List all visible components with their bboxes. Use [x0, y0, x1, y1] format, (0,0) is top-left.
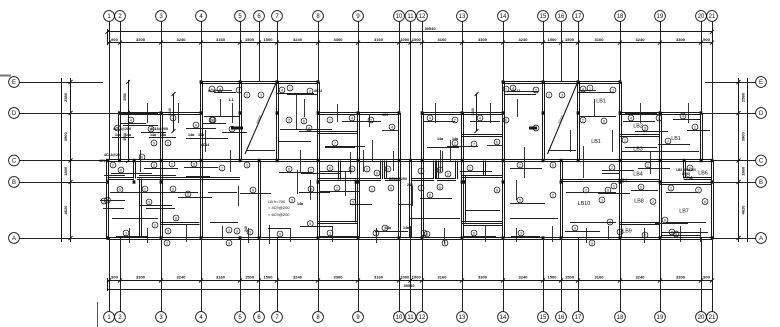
svg-text:2: 2 — [519, 163, 521, 167]
svg-text:3240: 3240 — [636, 37, 646, 42]
svg-text:4C14: 4C14 — [99, 159, 108, 163]
grid bubble top 12 — [417, 11, 428, 22]
svg-text:6: 6 — [429, 193, 431, 197]
svg-text:6: 6 — [603, 119, 605, 123]
svg-text:1: 1 — [589, 86, 591, 90]
svg-text:2: 2 — [154, 223, 156, 227]
svg-text:39540: 39540 — [424, 26, 436, 31]
svg-text:3240: 3240 — [177, 37, 187, 42]
svg-text:1000: 1000 — [412, 275, 422, 280]
svg-text:3160: 3160 — [595, 37, 605, 42]
bottom dimension lines — [107, 275, 714, 291]
left dimension lines — [62, 78, 73, 242]
svg-text:10: 10 — [396, 315, 403, 321]
grid lines top — [110, 22, 713, 161]
svg-text:6: 6 — [704, 200, 706, 204]
svg-text:4: 4 — [429, 116, 431, 120]
svg-text:2: 2 — [371, 187, 373, 191]
svg-text:13: 13 — [459, 315, 466, 321]
grid bubble bottom 1 — [104, 312, 115, 323]
svg-text:2: 2 — [246, 93, 248, 97]
svg-text:9: 9 — [574, 226, 576, 230]
svg-text:2: 2 — [624, 138, 626, 142]
svg-text:2: 2 — [166, 241, 168, 245]
interior vertical dimension brackets — [168, 92, 478, 133]
beam axis lines — [100, 91, 708, 245]
grid bubble top 15 — [538, 11, 549, 22]
svg-text:3900: 3900 — [63, 132, 68, 142]
svg-text:2: 2 — [420, 186, 422, 190]
svg-text:D: D — [759, 111, 764, 117]
svg-text:15: 15 — [540, 14, 547, 20]
svg-text:LB1: LB1 — [596, 99, 606, 105]
stair landing beams — [231, 127, 243, 130]
svg-text:LB4: LB4 — [683, 176, 693, 182]
svg-text:21: 21 — [709, 14, 716, 20]
svg-text:LB7: LB7 — [679, 209, 689, 215]
grid bubble bottom 14 — [498, 312, 509, 323]
svg-text:1500: 1500 — [264, 37, 274, 42]
svg-text:5: 5 — [640, 185, 642, 189]
svg-text:17: 17 — [575, 14, 582, 20]
row bubble right D — [756, 108, 767, 119]
svg-text:2: 2 — [187, 192, 189, 196]
svg-text:2: 2 — [246, 163, 248, 167]
svg-text:9: 9 — [279, 232, 281, 236]
svg-text:2: 2 — [552, 193, 554, 197]
svg-text:900: 900 — [703, 275, 710, 280]
svg-text:2: 2 — [548, 93, 550, 97]
grid bubble bottom 18 — [615, 312, 626, 323]
svg-text:19: 19 — [657, 315, 664, 321]
columns — [106, 80, 713, 239]
svg-text:9: 9 — [591, 241, 593, 245]
svg-text:1800: 1800 — [63, 166, 68, 176]
row bubble left D — [9, 108, 20, 119]
svg-text:4: 4 — [130, 118, 132, 122]
row leader lines right — [701, 83, 756, 239]
svg-text:8: 8 — [664, 218, 666, 222]
stray marks at sheet edges — [0, 75, 11, 77]
svg-text:3: 3 — [619, 230, 621, 234]
svg-text:11: 11 — [407, 315, 414, 321]
grid bubble bottom 9 — [353, 312, 364, 323]
grid bubble bottom 21 — [707, 312, 718, 323]
svg-text:LB1: LB1 — [591, 139, 601, 145]
svg-text:3160: 3160 — [374, 37, 384, 42]
svg-text:2: 2 — [585, 188, 587, 192]
svg-text:4C12: 4C12 — [208, 89, 217, 93]
svg-text:4C14@200: 4C14@200 — [113, 127, 131, 131]
grid bubble top 9 — [353, 11, 364, 22]
svg-text:6: 6 — [390, 186, 392, 190]
grid bubble bottom 5 — [235, 312, 246, 323]
svg-text:2: 2 — [387, 167, 389, 171]
svg-text:C: C — [759, 159, 764, 165]
svg-text:4620: 4620 — [741, 205, 746, 215]
svg-text:15: 15 — [540, 315, 547, 321]
svg-text:3240: 3240 — [177, 275, 187, 280]
row bubble right C — [756, 155, 767, 166]
svg-text:1000: 1000 — [412, 37, 422, 42]
svg-text:2: 2 — [309, 89, 311, 93]
svg-text:6: 6 — [439, 185, 441, 189]
outer walls (double-line boundary) — [107, 82, 714, 240]
svg-text:2: 2 — [288, 118, 290, 122]
svg-text:A: A — [12, 236, 16, 242]
svg-text:11: 11 — [407, 14, 414, 20]
svg-text:2580: 2580 — [741, 92, 746, 102]
svg-text:9: 9 — [644, 126, 646, 130]
svg-text:3: 3 — [561, 93, 563, 97]
svg-text:4: 4 — [479, 116, 481, 120]
svg-text:2: 2 — [535, 88, 537, 92]
svg-text:1-1: 1-1 — [228, 98, 233, 102]
svg-text:2: 2 — [221, 166, 223, 170]
svg-text:21: 21 — [709, 315, 716, 321]
svg-text:4: 4 — [630, 116, 632, 120]
svg-text:2: 2 — [670, 186, 672, 190]
grid bubble bottom 3 — [156, 312, 167, 323]
svg-text:4: 4 — [391, 125, 393, 129]
svg-text:14a: 14a — [385, 226, 392, 230]
svg-text:3160: 3160 — [438, 275, 448, 280]
grid bubble top 3 — [156, 11, 167, 22]
svg-text:< 6C9@200: < 6C9@200 — [268, 212, 290, 217]
svg-text:3: 3 — [228, 228, 230, 232]
svg-text:LB3: LB3 — [633, 147, 643, 153]
svg-text:7: 7 — [667, 139, 669, 143]
svg-text:3240: 3240 — [519, 37, 529, 42]
svg-text:6: 6 — [607, 188, 609, 192]
svg-text:3160: 3160 — [216, 275, 226, 280]
svg-text:2: 2 — [144, 187, 146, 191]
svg-text:LB9: LB9 — [622, 229, 632, 235]
grid bubble top 11 — [405, 11, 416, 22]
svg-text:5: 5 — [519, 198, 521, 202]
svg-text:1500: 1500 — [245, 275, 255, 280]
svg-text:3: 3 — [601, 198, 603, 202]
svg-text:12: 12 — [419, 14, 426, 20]
right dimension lines — [737, 78, 748, 242]
grid bubble bottom 2 — [115, 312, 126, 323]
svg-text:3240: 3240 — [168, 108, 172, 116]
svg-text:1800: 1800 — [741, 166, 746, 176]
grid bubble bottom 8 — [313, 312, 324, 323]
svg-text:1000: 1000 — [400, 275, 410, 280]
grid bubble bottom 20 — [696, 312, 707, 323]
svg-text:E: E — [759, 80, 763, 86]
svg-text:4C14@20: 4C14@20 — [104, 153, 120, 157]
top dimension lines — [106, 26, 715, 45]
svg-text:4620: 4620 — [63, 205, 68, 215]
svg-text:14a: 14a — [198, 133, 205, 137]
grid bubble top 13 — [457, 11, 468, 22]
svg-text:2: 2 — [351, 167, 353, 171]
svg-text:2: 2 — [611, 166, 613, 170]
svg-text:LB h=700: LB h=700 — [268, 199, 286, 204]
svg-text:2: 2 — [647, 163, 649, 167]
svg-text:2: 2 — [613, 184, 615, 188]
svg-text:5: 5 — [352, 200, 354, 204]
svg-text:2: 2 — [469, 166, 471, 170]
grid bubble bottom 16 — [556, 312, 567, 323]
svg-text:8: 8 — [175, 216, 177, 220]
grid bubble top 21 — [707, 11, 718, 22]
svg-text:3: 3 — [249, 230, 251, 234]
svg-text:6: 6 — [288, 167, 290, 171]
interior walls (double-line partitions) — [108, 82, 713, 238]
svg-text:2: 2 — [171, 162, 173, 166]
svg-text:16: 16 — [558, 315, 565, 321]
svg-text:6: 6 — [376, 171, 378, 175]
svg-text:3: 3 — [260, 93, 262, 97]
svg-text:9: 9 — [309, 222, 311, 226]
svg-text:1500: 1500 — [565, 275, 575, 280]
svg-text:3300: 3300 — [334, 275, 344, 280]
svg-text:2: 2 — [420, 169, 422, 173]
grid bubble top 4 — [196, 11, 207, 22]
stair 2 diagonal — [548, 83, 578, 155]
grid bubble bottom 6 — [254, 312, 265, 323]
svg-text:3300: 3300 — [334, 37, 344, 42]
svg-text:LB1: LB1 — [671, 136, 681, 142]
svg-text:6: 6 — [211, 118, 213, 122]
svg-text:19: 19 — [657, 14, 664, 20]
svg-text:14a: 14a — [452, 137, 459, 141]
svg-text:4C14: 4C14 — [201, 143, 210, 147]
svg-text:900: 900 — [111, 275, 118, 280]
svg-text:1: 1 — [289, 86, 291, 90]
svg-text:6: 6 — [120, 168, 122, 172]
stair 1 diagonal — [245, 83, 276, 155]
svg-text:12: 12 — [419, 315, 426, 321]
svg-text:LB6: LB6 — [698, 171, 708, 177]
grid bubble bottom 11 — [405, 312, 416, 323]
grid bubble top 1 — [104, 11, 115, 22]
svg-text:14a: 14a — [160, 133, 167, 137]
svg-text:14a: 14a — [150, 133, 157, 137]
svg-text:18: 18 — [617, 14, 624, 20]
svg-text:6: 6 — [552, 163, 554, 167]
row bubble right B — [756, 177, 767, 188]
rebar annotation texts — [99, 89, 521, 232]
LB beam labels — [578, 99, 708, 235]
svg-text:2: 2 — [652, 200, 654, 204]
svg-text:39540: 39540 — [403, 283, 415, 288]
svg-text:5: 5 — [119, 188, 121, 192]
grid bubble bottom 7 — [272, 312, 283, 323]
svg-text:> 4C9@200: > 4C9@200 — [268, 205, 290, 210]
svg-text:D: D — [12, 111, 17, 117]
svg-text:8: 8 — [172, 187, 174, 191]
svg-text:3300: 3300 — [478, 37, 488, 42]
svg-text:LB10: LB10 — [578, 201, 591, 207]
svg-text:3240: 3240 — [471, 108, 475, 116]
svg-text:3: 3 — [423, 231, 425, 235]
svg-text:4: 4 — [351, 116, 353, 120]
svg-text:16: 16 — [558, 14, 565, 20]
svg-text:14a: 14a — [115, 133, 122, 137]
grid bubble top 18 — [615, 11, 626, 22]
svg-text:LB4: LB4 — [618, 179, 628, 185]
grid bubble bottom 17 — [573, 312, 584, 323]
svg-text:2: 2 — [310, 168, 312, 172]
svg-text:9: 9 — [195, 123, 197, 127]
interior dim line x=128 (E..C) — [123, 80, 130, 163]
svg-text:4C12: 4C12 — [314, 89, 323, 93]
svg-text:9: 9 — [675, 232, 677, 236]
svg-text:2: 2 — [336, 186, 338, 190]
grid lines bottom — [110, 238, 713, 312]
row bubble left B — [9, 177, 20, 188]
svg-text:2: 2 — [454, 141, 456, 145]
svg-text:1500: 1500 — [245, 37, 255, 42]
svg-text:3240: 3240 — [293, 275, 303, 280]
svg-text:2: 2 — [370, 118, 372, 122]
grid bubble bottom 12 — [417, 312, 428, 323]
svg-text:4: 4 — [281, 88, 283, 92]
svg-text:2: 2 — [238, 88, 240, 92]
svg-text:3: 3 — [125, 231, 127, 235]
svg-text:B: B — [759, 180, 763, 186]
svg-text:9: 9 — [153, 141, 155, 145]
svg-text:9: 9 — [473, 231, 475, 235]
svg-text:4: 4 — [172, 116, 174, 120]
svg-text:14a: 14a — [297, 202, 304, 206]
svg-text:3240: 3240 — [519, 275, 529, 280]
grid bubble top 14 — [498, 11, 509, 22]
grid bubble bottom 4 — [196, 312, 207, 323]
svg-text:2: 2 — [167, 141, 169, 145]
svg-text:9: 9 — [167, 229, 169, 233]
grid bubble top 7 — [272, 11, 283, 22]
svg-text:6: 6 — [329, 166, 331, 170]
svg-text:14a: 14a — [125, 133, 132, 137]
svg-text:2: 2 — [658, 116, 660, 120]
svg-text:2: 2 — [447, 172, 449, 176]
svg-text:1500: 1500 — [264, 275, 274, 280]
svg-text:240: 240 — [244, 226, 248, 232]
grid bubble top 19 — [655, 11, 666, 22]
svg-text:3300: 3300 — [676, 275, 686, 280]
svg-text:2580: 2580 — [123, 93, 127, 101]
svg-text:13: 13 — [459, 14, 466, 20]
svg-text:14: 14 — [500, 315, 507, 321]
svg-text:1000: 1000 — [400, 37, 410, 42]
svg-text:7: 7 — [473, 142, 475, 146]
svg-text:2: 2 — [153, 163, 155, 167]
svg-text:2: 2 — [112, 163, 114, 167]
svg-text:3240: 3240 — [293, 37, 303, 42]
svg-text:17: 17 — [575, 315, 582, 321]
svg-text:B: B — [12, 180, 16, 186]
svg-text:1500: 1500 — [548, 275, 558, 280]
grid bubble bottom 19 — [655, 312, 666, 323]
row bubble left A — [9, 233, 20, 244]
svg-text:14a: 14a — [188, 133, 195, 137]
svg-text:2: 2 — [366, 167, 368, 171]
svg-text:14: 14 — [500, 14, 507, 20]
svg-text:6: 6 — [303, 119, 305, 123]
svg-text:4C12: 4C12 — [512, 89, 521, 93]
svg-text:9: 9 — [228, 241, 230, 245]
svg-text:3: 3 — [520, 231, 522, 235]
svg-text:4C9: 4C9 — [382, 113, 389, 117]
svg-text:2: 2 — [694, 125, 696, 129]
svg-text:3160: 3160 — [595, 275, 605, 280]
svg-text:3: 3 — [103, 199, 105, 203]
svg-text:E: E — [12, 80, 16, 86]
svg-text:6: 6 — [496, 140, 498, 144]
svg-text:2: 2 — [454, 118, 456, 122]
svg-text:LB2: LB2 — [633, 124, 643, 130]
row bubble left C — [9, 155, 20, 166]
row bubble left E — [9, 77, 20, 88]
svg-text:3900: 3900 — [741, 132, 746, 142]
svg-text:2: 2 — [329, 118, 331, 122]
row leader lines left — [20, 83, 122, 239]
svg-text:4: 4 — [682, 114, 684, 118]
svg-text:3300: 3300 — [136, 275, 146, 280]
svg-text:3160: 3160 — [374, 275, 384, 280]
grid bubble top 5 — [235, 11, 246, 22]
svg-text:LB8: LB8 — [634, 199, 644, 205]
svg-text:2580: 2580 — [63, 92, 68, 102]
svg-text:3300: 3300 — [676, 37, 686, 42]
svg-text:900: 900 — [703, 37, 710, 42]
svg-text:14a: 14a — [437, 137, 444, 141]
grid bubble top 20 — [696, 11, 707, 22]
grid bubble top 6 — [254, 11, 265, 22]
svg-text:3C14@200: 3C14@200 — [389, 177, 407, 181]
svg-text:18: 18 — [617, 315, 624, 321]
svg-text:3300: 3300 — [136, 37, 146, 42]
svg-text:9: 9 — [231, 127, 233, 131]
svg-text:4C14@200: 4C14@200 — [150, 127, 168, 131]
grid bubble bottom 15 — [538, 312, 549, 323]
svg-text:9: 9 — [236, 229, 238, 233]
svg-text:1500: 1500 — [548, 37, 558, 42]
row bubble right E — [756, 77, 767, 88]
svg-text:6: 6 — [141, 155, 143, 159]
svg-text:3: 3 — [698, 188, 700, 192]
svg-text:LB4: LB4 — [633, 172, 643, 178]
svg-text:7: 7 — [334, 141, 336, 145]
svg-text:C: C — [12, 159, 17, 165]
svg-text:1500: 1500 — [565, 37, 575, 42]
svg-text:20: 20 — [698, 315, 705, 321]
svg-text:2: 2 — [535, 126, 537, 130]
svg-text:1: 1 — [505, 87, 507, 91]
svg-text:6: 6 — [496, 188, 498, 192]
svg-text:240: 240 — [407, 183, 413, 187]
svg-text:2: 2 — [582, 118, 584, 122]
svg-text:3300: 3300 — [478, 275, 488, 280]
svg-text:6: 6 — [252, 188, 254, 192]
svg-text:900: 900 — [111, 37, 118, 42]
svg-text:5: 5 — [148, 200, 150, 204]
grid bubble top 17 — [573, 11, 584, 22]
svg-text:L5(6): L5(6) — [682, 172, 690, 176]
row bubble right A — [756, 233, 767, 244]
svg-text:5: 5 — [291, 198, 293, 202]
svg-text:A: A — [759, 236, 763, 242]
grid bubble top 8 — [313, 11, 324, 22]
svg-text:3160: 3160 — [216, 37, 226, 42]
grid bubble bottom 13 — [457, 312, 468, 323]
svg-text:2: 2 — [612, 88, 614, 92]
